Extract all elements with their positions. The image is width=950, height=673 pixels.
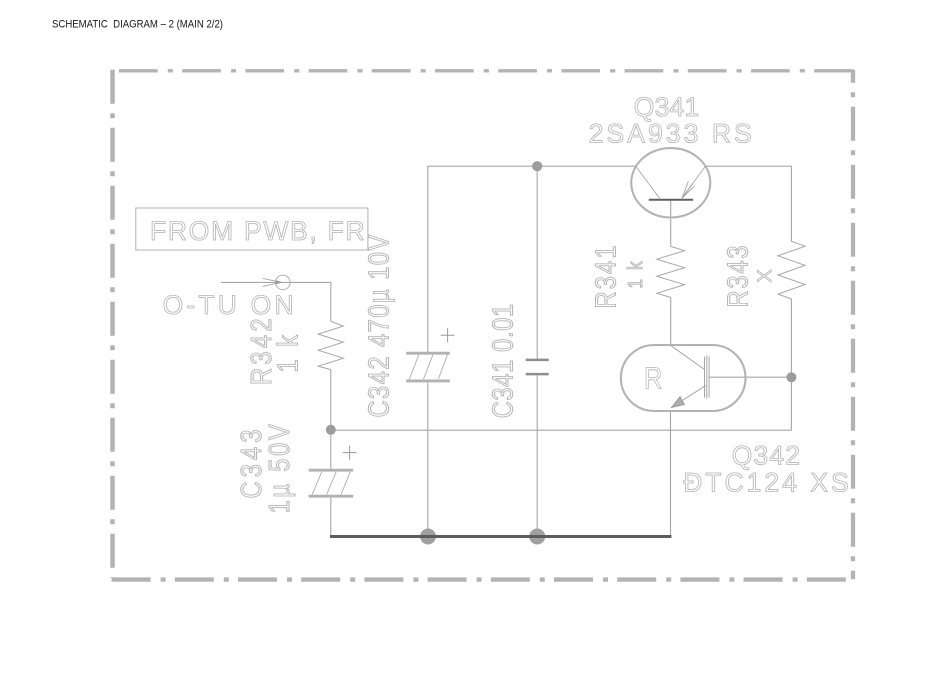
svg-text:Q342: Q342 bbox=[732, 440, 800, 470]
wire: C342 branch down bbox=[427, 166, 429, 352]
wire: node A down to C343 bbox=[330, 430, 332, 469]
svg-text:R341: R341 bbox=[589, 246, 622, 309]
node B dot bbox=[786, 372, 796, 382]
border frame top bbox=[119, 69, 853, 72]
capacitor C342 bbox=[406, 328, 454, 381]
capacitor C341 bbox=[526, 360, 549, 374]
resistor R341 bbox=[657, 246, 685, 297]
wire: top rail right of Q341 bbox=[705, 165, 791, 167]
svg-text:O-TU ON: O-TU ON bbox=[163, 290, 294, 320]
label 2SA933 RS bbox=[589, 119, 752, 149]
label C341 0.01 bbox=[486, 304, 519, 419]
wire: R341 bottom to Q342 collector bbox=[670, 298, 672, 346]
svg-text:X: X bbox=[754, 269, 776, 282]
transistor Q342 bbox=[621, 345, 746, 411]
wire: R343 bottom through node to y430 rail bbox=[790, 299, 792, 430]
svg-text:FROM PWB, FR: FROM PWB, FR bbox=[150, 216, 365, 246]
label C343 bbox=[235, 430, 268, 499]
wire: Q341 emitter down to R341 bbox=[670, 200, 672, 247]
svg-text:SCHEMATIC DIAGRAM – 2 (MAIN 2: SCHEMATIC DIAGRAM – 2 (MAIN 2/2) bbox=[52, 18, 223, 30]
label R343 bbox=[721, 246, 754, 308]
wire: C342 bottom to ground bus bbox=[427, 382, 429, 536]
wire: C343 bottom to ground bus bbox=[330, 498, 332, 537]
resistor R342 bbox=[318, 321, 343, 369]
ground node dot C342 bbox=[420, 529, 436, 545]
wire: Q342 emitter down to ground bus bbox=[670, 411, 672, 536]
wire: top rail down to R343 bbox=[790, 166, 792, 242]
svg-text:1k: 1k bbox=[625, 261, 648, 288]
wire: R342 bottom to node A bbox=[330, 370, 332, 430]
wire: C341 branch down bbox=[536, 166, 538, 359]
svg-text:2SA933 RS: 2SA933 RS bbox=[589, 119, 752, 149]
label C342 470u 10V bbox=[362, 234, 395, 417]
svg-text:Q341: Q341 bbox=[634, 92, 699, 122]
label R342 bbox=[245, 319, 278, 386]
label FROM PWB, FR bbox=[150, 216, 365, 246]
label R343 value X bbox=[754, 269, 776, 282]
svg-text:R342: R342 bbox=[245, 319, 278, 386]
wire: C341 bottom to ground bus bbox=[536, 375, 538, 536]
node dot top rail bbox=[532, 161, 542, 171]
label Q342 bbox=[732, 440, 800, 470]
title bbox=[52, 18, 223, 30]
svg-text:R343: R343 bbox=[721, 246, 754, 308]
svg-text:1µ 50V: 1µ 50V bbox=[263, 424, 296, 514]
capacitor C343 bbox=[309, 446, 357, 497]
svg-text:ĐTC124 XS: ĐTC124 XS bbox=[683, 467, 849, 497]
label O-TU ON bbox=[163, 290, 294, 320]
wire: Q342 base to node B bbox=[709, 376, 792, 378]
svg-text:R: R bbox=[644, 361, 662, 396]
ground bus bbox=[330, 535, 671, 538]
wire: O-TU ON input through terminal to R342 corner bbox=[221, 282, 331, 321]
label Q341 bbox=[634, 92, 699, 122]
transistor Q341 bbox=[631, 148, 710, 217]
terminal O-TU ON bbox=[263, 275, 291, 290]
border frame right bbox=[851, 70, 855, 580]
svg-text:C342 470µ 10V: C342 470µ 10V bbox=[362, 234, 395, 417]
ground node dot C341 bbox=[529, 529, 545, 545]
node A dot bbox=[326, 425, 336, 435]
resistor R343 bbox=[778, 241, 805, 299]
wire: top rail left of Q341 bbox=[428, 165, 636, 167]
border frame left bbox=[110, 70, 115, 578]
wire: horizontal rail y430 bbox=[331, 429, 792, 431]
label C343 value 1u 50V bbox=[263, 424, 296, 514]
border frame bottom bbox=[112, 577, 846, 581]
label DTC124 XS bbox=[683, 467, 849, 497]
label R342 value 1k bbox=[271, 334, 304, 372]
FROM PWB, FR label box bbox=[136, 208, 368, 250]
svg-text:C341 0.01: C341 0.01 bbox=[486, 304, 519, 419]
label R341 value 1k bbox=[625, 261, 648, 288]
label R341 bbox=[589, 246, 622, 309]
